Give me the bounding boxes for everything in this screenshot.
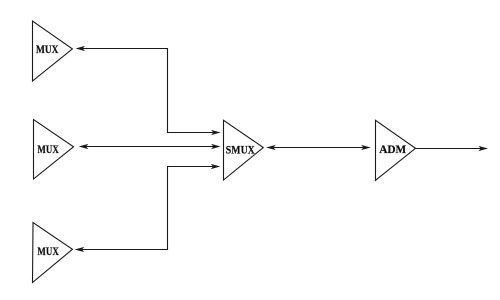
svg-text:MUX: MUX [37, 142, 59, 156]
wire W1 (SMUX to MUX1: up-left L wire) [77, 49, 219, 133]
wire W3 (SMUX to MUX3: down-left L wire) [76, 167, 219, 250]
arrowhead into MUX1 apex (points left) [76, 46, 86, 51]
arrowhead into ADM left edge (points right) [361, 145, 371, 150]
svg-text:MUX: MUX [37, 244, 59, 258]
wire W4 (SMUX apex to ADM: horizontal double-arrow) [268, 147, 370, 149]
wire W5 (ADM apex output to right edge) [416, 148, 487, 150]
arrowhead into SMUX left edge middle (points right) [211, 144, 221, 149]
arrowhead toward MUX2 apex (points left) [79, 144, 89, 149]
mux MUX1 (top-left triangle) [33, 21, 73, 81]
mux MUX2 (middle-left triangle) [34, 120, 74, 180]
adm ADM (right triangle) [376, 120, 416, 180]
arrowhead at output end (points right) [479, 146, 489, 151]
svg-text:MUX: MUX [36, 42, 59, 56]
arrowhead toward SMUX apex (points left) [266, 145, 276, 150]
arrowhead into SMUX left edge bottom (points right) [211, 164, 221, 169]
smux SMUX (center triangle) [224, 120, 264, 180]
arrowhead into MUX3 apex (points left) [75, 247, 85, 252]
svg-text:SMUX: SMUX [226, 143, 255, 157]
svg-text:ADM: ADM [379, 142, 406, 156]
arrowhead into SMUX left edge top (points right) [211, 130, 221, 135]
wire W2 (MUX2 to SMUX: horizontal double-arrow) [80, 146, 219, 148]
mux MUX3 (bottom-left triangle) [33, 223, 73, 283]
